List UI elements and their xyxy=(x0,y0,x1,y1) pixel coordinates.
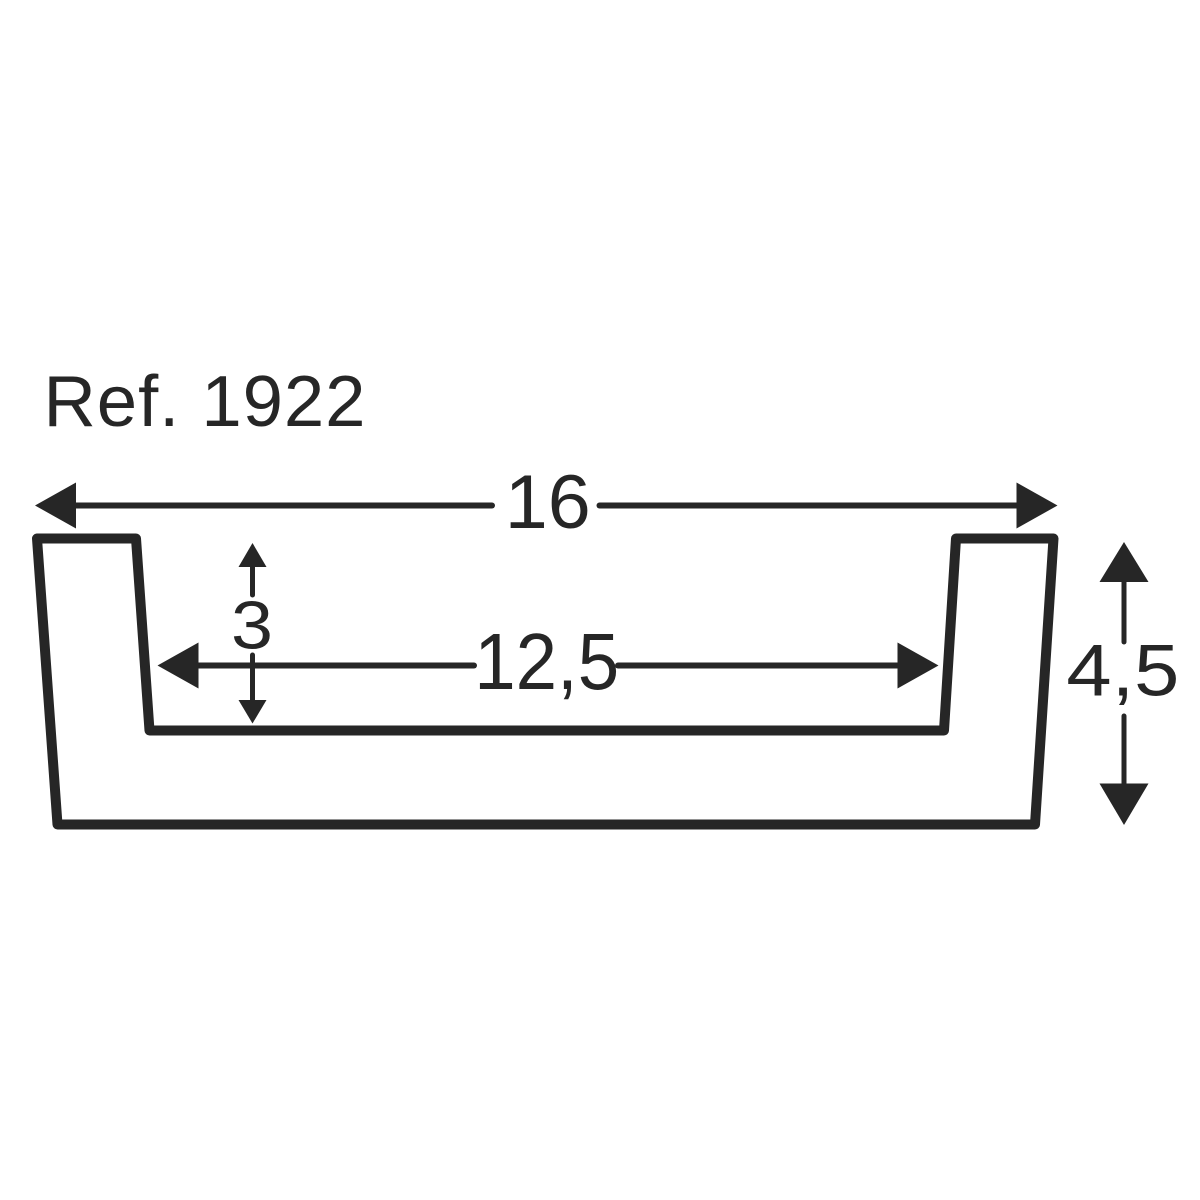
wire: dim line 12,5 left segment xyxy=(195,663,474,669)
svg-text:12,5: 12,5 xyxy=(474,617,619,706)
wire: dim line 4,5 lower stem xyxy=(1122,716,1127,786)
arrowhead 4,5 down xyxy=(1100,784,1149,826)
arrowhead 12,5 left xyxy=(158,643,199,689)
arrowhead 4,5 up xyxy=(1100,542,1149,582)
dimension 16 xyxy=(35,460,1058,545)
svg-text:Ref. 1922: Ref. 1922 xyxy=(44,361,366,442)
wire: dim line 4,5 upper stem xyxy=(1122,578,1127,642)
profile outline xyxy=(37,539,1054,825)
svg-text:16: 16 xyxy=(505,460,591,545)
svg-text:4,5: 4,5 xyxy=(1066,631,1179,712)
arrowhead 16 left xyxy=(35,483,76,529)
arrowhead 3 down xyxy=(239,700,267,724)
arrowhead 12,5 right xyxy=(898,643,939,689)
arrowhead 3 up xyxy=(239,543,267,567)
dimension 12,5 xyxy=(158,617,939,706)
wire: dim line 3 lower stem xyxy=(250,655,255,702)
dimension 3 xyxy=(231,543,273,724)
wire: dim line 12,5 right segment xyxy=(618,663,901,669)
wire: dim line 16 left segment xyxy=(72,503,492,509)
arrowhead 16 right xyxy=(1017,483,1058,529)
dimension 4,5 xyxy=(1066,542,1179,825)
svg-text:3: 3 xyxy=(231,588,273,664)
wire: dim line 16 right segment xyxy=(600,503,1021,509)
wire: dim line 3 upper stem xyxy=(250,564,255,595)
